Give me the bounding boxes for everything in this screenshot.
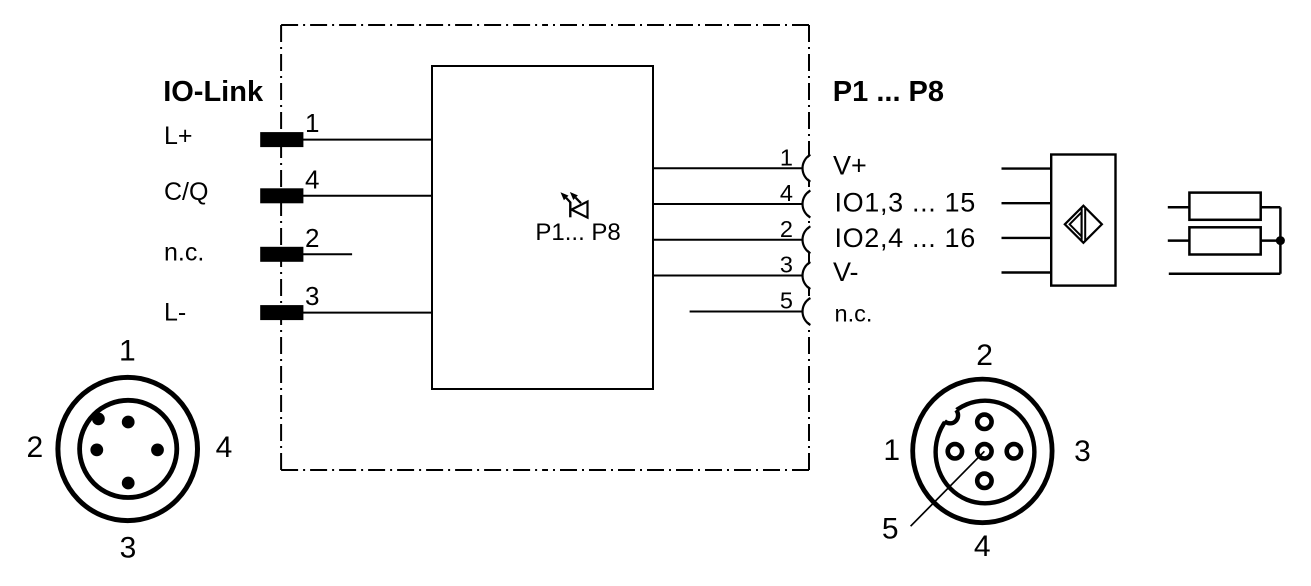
connector J1 inner circle (80, 400, 177, 497)
svg-text:3: 3 (780, 252, 793, 278)
wire bottom return (1169, 273, 1281, 276)
sensor S1 diamond inner bars (1081, 207, 1083, 241)
svg-text:4: 4 (305, 164, 319, 194)
sensor S1 proximity diamond (1065, 206, 1102, 243)
junction dot (1276, 236, 1285, 245)
svg-text:3: 3 (305, 281, 319, 311)
svg-text:P1... P8: P1... P8 (535, 219, 620, 246)
pin bar n.c. (pin 2) (260, 247, 303, 262)
connector J2 inner circle (936, 401, 1035, 504)
connector J2 socket E (1007, 444, 1021, 458)
svg-text:4: 4 (216, 431, 233, 464)
connector J2 socket center (pin 5) (977, 444, 991, 458)
inner device block U1 (432, 66, 653, 389)
svg-text:1: 1 (119, 335, 136, 368)
wire L+ (303, 139, 432, 141)
wire IO1,3 (pin 4) (653, 203, 803, 205)
connector J2 socket W (948, 444, 962, 458)
wire L- (303, 312, 432, 314)
svg-text:P1 ... P8: P1 ... P8 (833, 76, 944, 108)
svg-text:4: 4 (780, 180, 793, 206)
connector J1 pin dot S (122, 477, 135, 490)
connector J1 (M12 male) outer circle (58, 377, 198, 520)
wire R2 left (1168, 239, 1190, 242)
pin bar L- (pin 3) (260, 305, 303, 320)
svg-text:C/Q: C/Q (164, 178, 208, 206)
svg-text:3: 3 (120, 531, 137, 564)
svg-text:5: 5 (780, 288, 793, 314)
sensor S1 body (1051, 155, 1115, 286)
pin bar C/Q (pin 4) (260, 188, 303, 203)
LED D1 emission arrow left (561, 192, 571, 203)
wire V- (pin 3) (653, 275, 803, 277)
svg-text:V-: V- (833, 257, 859, 287)
LED D1 emission arrow right (570, 192, 581, 203)
connector J2 socket S (977, 474, 991, 488)
socket arc pin 4 (804, 190, 833, 219)
wire sensor IO1 (1002, 202, 1052, 204)
svg-text:1: 1 (883, 434, 900, 467)
svg-text:1: 1 (780, 144, 793, 170)
socket arc pin 2 (804, 226, 833, 255)
wire sensor V+ (1002, 167, 1052, 169)
connector J1 pin dot NW (92, 413, 105, 426)
wire n.c. stub (303, 253, 352, 255)
resistor R2 (1189, 227, 1260, 254)
connector J1 pin dot E (151, 444, 164, 457)
connector J1 pin dot W (90, 444, 103, 457)
resistor R1 (1189, 193, 1260, 220)
wire IO2,4 (pin 2) (653, 239, 803, 241)
svg-text:2: 2 (305, 223, 319, 253)
svg-text:L+: L+ (164, 122, 193, 150)
svg-text:2: 2 (27, 431, 44, 464)
wire R1 right (1261, 206, 1281, 209)
svg-text:n.c.: n.c. (164, 239, 204, 267)
svg-text:L-: L- (164, 298, 186, 326)
LED D1 cathode bar (569, 202, 571, 217)
connector J2 socket N (977, 415, 991, 429)
svg-text:IO1,3 ... 15: IO1,3 ... 15 (835, 187, 976, 217)
wire C/Q (303, 195, 432, 197)
socket arc pin 3 (804, 261, 833, 290)
socket arc pin 5 (804, 297, 833, 326)
connector J2 (M12 female) outer circle (913, 379, 1052, 523)
connector J2 pin5 leader line (911, 451, 985, 526)
svg-text:n.c.: n.c. (835, 301, 873, 327)
connector J2 keyway notch (942, 407, 960, 425)
svg-text:4: 4 (974, 530, 991, 563)
wire sensor V- (1002, 271, 1052, 273)
wire R2 right (1261, 239, 1281, 242)
svg-text:2: 2 (780, 216, 793, 242)
svg-text:2: 2 (976, 339, 993, 372)
svg-text:IO-Link: IO-Link (163, 76, 264, 108)
LED D1 diode triangle (572, 202, 588, 218)
sensor S1 inner triangle (1070, 212, 1082, 236)
svg-text:V+: V+ (833, 151, 867, 181)
svg-text:IO2,4 ... 16: IO2,4 ... 16 (835, 223, 976, 253)
svg-text:1: 1 (305, 108, 319, 138)
wire V+ (pin 1) (653, 167, 803, 169)
pin bar L+ (pin 1) (260, 132, 303, 147)
wire sensor IO2 (1002, 237, 1052, 239)
svg-text:3: 3 (1074, 435, 1091, 468)
svg-text:5: 5 (882, 513, 899, 546)
connector J1 pin dot N (122, 416, 135, 429)
wire R1 left (1168, 206, 1190, 209)
socket arc pin 1 (804, 154, 833, 183)
wire right vertical (1279, 207, 1282, 274)
wire n.c. (pin 5) (690, 311, 803, 313)
device boundary dash-dot box (281, 25, 809, 470)
